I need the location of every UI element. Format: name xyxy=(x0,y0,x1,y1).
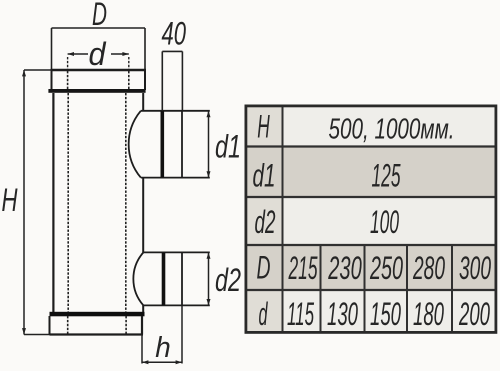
svg-text:d1: d1 xyxy=(253,158,276,194)
table row line 3 xyxy=(245,244,498,246)
pipe body right wall upper xyxy=(142,93,144,111)
table row line 2 xyxy=(245,196,498,198)
branch d2 top edge xyxy=(143,251,209,253)
svg-text:125: 125 xyxy=(372,158,401,194)
svg-text:250: 250 xyxy=(369,250,403,286)
collar right side xyxy=(144,70,146,90)
svg-text:215: 215 xyxy=(288,250,318,286)
collar inner dashed right xyxy=(128,71,130,90)
svg-text:230: 230 xyxy=(328,250,362,286)
pipe body left wall xyxy=(52,93,54,312)
table column line 5 xyxy=(451,245,453,333)
pipe inner dashed right xyxy=(125,93,127,312)
svg-text:300: 300 xyxy=(459,250,491,286)
dimension 40 bracket xyxy=(162,51,182,110)
svg-text:100: 100 xyxy=(370,204,399,240)
collar left side xyxy=(51,70,53,90)
svg-text:H: H xyxy=(2,182,19,218)
branch d1 saddle curve xyxy=(129,111,141,178)
collar top edge xyxy=(51,69,147,72)
svg-text:d2: d2 xyxy=(255,204,276,240)
table row d1 gray xyxy=(245,147,496,198)
table column line 1 xyxy=(282,105,284,333)
table row line 1 xyxy=(245,145,498,147)
H dimension line xyxy=(23,70,25,335)
svg-text:180: 180 xyxy=(413,296,444,332)
svg-text:D: D xyxy=(257,250,271,286)
svg-text:115: 115 xyxy=(287,296,314,332)
branch d2 saddle curve xyxy=(133,252,143,305)
h right extension xyxy=(181,305,183,363)
svg-text:40: 40 xyxy=(161,15,186,51)
branch d2 end line xyxy=(181,253,183,306)
top crimp band xyxy=(48,89,145,93)
svg-text:280: 280 xyxy=(412,250,445,286)
pipe inner dashed left xyxy=(67,93,69,312)
svg-text:h: h xyxy=(155,332,171,364)
branch d2 bottom edge xyxy=(143,304,209,306)
bottom crimp band xyxy=(50,312,145,317)
collar inner dashed left xyxy=(67,71,69,90)
branch d1 end line xyxy=(181,111,183,177)
d1 dimension line xyxy=(208,111,210,178)
table outer border xyxy=(246,106,496,333)
H bottom extension xyxy=(24,334,50,336)
svg-text:d: d xyxy=(259,296,269,332)
branch d1 seam xyxy=(161,111,165,177)
table column line 3 xyxy=(364,245,366,333)
dimension d line with arrows xyxy=(68,53,129,55)
bottom collar inner dashed right xyxy=(125,316,127,334)
bottom collar left side xyxy=(49,316,51,335)
svg-text:200: 200 xyxy=(458,296,490,332)
pipe body right wall middle xyxy=(142,178,144,253)
branch d1 bottom edge xyxy=(141,177,210,179)
table row line 4 xyxy=(245,289,498,291)
H top extension xyxy=(24,69,52,71)
bottom collar right side xyxy=(141,316,143,335)
svg-text:d: d xyxy=(89,36,107,72)
svg-text:150: 150 xyxy=(370,296,401,332)
bottom collar bottom edge xyxy=(50,333,144,335)
h dimension line xyxy=(142,361,182,363)
svg-text:d1: d1 xyxy=(215,129,241,165)
svg-text:D: D xyxy=(92,0,107,32)
d2 dimension line xyxy=(208,252,210,305)
svg-text:H: H xyxy=(257,109,270,145)
table row D gray xyxy=(245,245,496,290)
d extension dashed xyxy=(68,57,129,70)
svg-text:d2: d2 xyxy=(215,262,241,298)
bottom collar inner dashed left xyxy=(67,316,69,334)
table column line 2 xyxy=(320,245,322,333)
branch d2 seam xyxy=(162,253,166,306)
table column line 4 xyxy=(406,245,408,333)
svg-text:130: 130 xyxy=(327,296,358,332)
svg-text:500, 1000мм.: 500, 1000мм. xyxy=(329,114,455,146)
table background light cells xyxy=(245,105,496,333)
dimension D bracket xyxy=(52,28,146,70)
pipe body right wall lower xyxy=(142,305,144,312)
h left extension xyxy=(141,335,143,364)
table left column light xyxy=(245,105,283,333)
branch d1 top edge xyxy=(141,110,210,112)
